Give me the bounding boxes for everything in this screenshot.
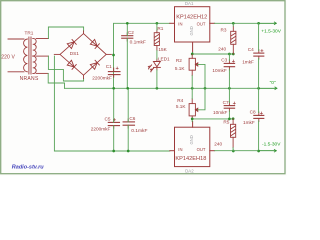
svg-text:GND: GND [189, 135, 194, 144]
svg-text:DS1: DS1 [70, 51, 80, 56]
junction C2/C6 column on 0 rail [126, 87, 129, 90]
svg-text:240: 240 [214, 141, 222, 146]
resistor R1 [154, 30, 159, 51]
junction C3/C7 column on 0 rail [228, 87, 231, 90]
diode D top-left [67, 39, 76, 48]
svg-text:5.1K: 5.1K [176, 104, 187, 109]
svg-text:C2: C2 [128, 30, 134, 35]
capacitor C1 [108, 68, 120, 77]
svg-text:2200mkF: 2200mkF [91, 126, 111, 131]
svg-text:GND: GND [189, 26, 194, 35]
wire C2 column [126, 23, 128, 88]
svg-text:C4: C4 [248, 47, 254, 52]
svg-text:5.1K: 5.1K [175, 66, 186, 71]
svg-text:NRANS: NRANS [20, 76, 39, 82]
capacitor C2 [122, 33, 133, 41]
svg-text:C1: C1 [106, 64, 112, 69]
junction C7 bottom [228, 118, 231, 121]
IC DA1 [170, 7, 215, 53]
svg-text:1mkF: 1mkF [242, 59, 254, 64]
junction R5 on -out rail [232, 150, 235, 153]
transformer TR1 [8, 37, 48, 74]
junction C8 on -out rail [257, 150, 260, 153]
junction R5 top [232, 117, 235, 120]
svg-text:KP142EH18: KP142EH18 [175, 156, 206, 162]
junction wiper column on 0 rail [204, 87, 207, 90]
wire C5 C6 columns [113, 88, 115, 151]
wire C4 column [258, 23, 260, 88]
junction C3 top [228, 53, 231, 56]
wire bridge plus down to C1 and 0 rail [113, 55, 115, 88]
svg-text:DA2: DA2 [185, 168, 194, 173]
diode D bottom-left [67, 60, 76, 69]
junction R1 / +raw rail [156, 22, 159, 25]
svg-text:LED1: LED1 [158, 57, 170, 62]
capacitor C4 [254, 50, 264, 60]
out rail DA2 [215, 150, 259, 152]
svg-text:R2: R2 [176, 58, 182, 63]
top rail out segment [215, 22, 259, 24]
svg-text:2200mkF: 2200mkF [92, 75, 112, 80]
junction C4/C8 column on 0 rail [257, 87, 260, 90]
svg-text:15K: 15K [158, 47, 167, 52]
trimmer R4 [189, 99, 198, 119]
svg-text:0.1mkF: 0.1mkF [131, 128, 147, 134]
svg-text:0.1mkF: 0.1mkF [130, 39, 146, 45]
svg-text:OUT: OUT [197, 147, 206, 152]
svg-text:KP142EH12: KP142EH12 [176, 15, 207, 21]
junction R3 on +out rail [232, 22, 235, 25]
junction C2 / +raw rail [126, 22, 129, 25]
svg-text:10mkF: 10mkF [213, 110, 227, 115]
svg-text:R3: R3 [221, 27, 227, 32]
wire rail to R1 [156, 23, 158, 30]
junction DA2 GND / R4 [191, 118, 194, 121]
svg-text:C5: C5 [105, 116, 111, 121]
svg-text:-1.5-30V: -1.5-30V [262, 142, 281, 148]
wire C3 column [228, 54, 230, 88]
wire C8 column [258, 88, 260, 150]
svg-text:R1: R1 [157, 26, 163, 31]
capacitor C3 [224, 60, 234, 70]
IC DA2 [170, 122, 215, 167]
svg-text:"0": "0" [270, 80, 276, 86]
node junction bridge out [112, 54, 115, 57]
wire bridge plus up and top rail [114, 23, 170, 55]
svg-text:C6: C6 [129, 116, 135, 121]
resistor R5 [231, 119, 236, 148]
wire DA2 gnd horizontal [192, 119, 233, 122]
svg-text:R5: R5 [223, 119, 229, 124]
wire R1 to LED1 [156, 51, 158, 59]
svg-text:C3: C3 [221, 58, 227, 63]
junction C4 on +out rail [257, 22, 260, 25]
capacitor C6 [123, 119, 134, 128]
junction DA1 GND / R2 [191, 53, 194, 56]
junction C1/C5 column on 0 rail [112, 87, 115, 90]
svg-text:IN: IN [178, 22, 182, 27]
capacitor C7 [224, 102, 234, 112]
pin +out arrow [259, 22, 277, 25]
wire R2 bottom to 0 rail [191, 76, 193, 89]
LED1 [148, 59, 160, 72]
wire 0 rail to R4 top [191, 88, 193, 99]
junction C5 on -raw rail [112, 150, 115, 153]
wire sec top to bridge top [48, 27, 83, 39]
wire center tap to bridge bottom [48, 56, 83, 81]
junction R2/R4 column on 0 rail [191, 87, 194, 90]
wire sec bottom to 0 rail start [48, 73, 64, 88]
wire R4 wiper to 0 rail [198, 88, 205, 110]
wire R2 wiper to 0 rail [198, 64, 205, 88]
resistor R3 [231, 26, 236, 54]
svg-text:+1.5-30V: +1.5-30V [261, 29, 281, 35]
border frame [1, 1, 285, 174]
raw negative rail [54, 56, 169, 151]
svg-text:220 V: 220 V [1, 55, 15, 61]
trimmer R2 [189, 55, 198, 76]
svg-text:DA1: DA1 [185, 1, 194, 6]
wire C7 column [228, 88, 230, 119]
capacitor C8 [254, 112, 264, 122]
svg-text:TR1: TR1 [25, 30, 34, 35]
svg-text:OUT: OUT [197, 22, 206, 27]
capacitor C5 [108, 120, 119, 129]
svg-text:IN: IN [178, 147, 182, 152]
0 rail [65, 87, 259, 89]
svg-text:Radio-stv.ru: Radio-stv.ru [12, 164, 44, 170]
svg-text:1mkF: 1mkF [243, 120, 255, 125]
pin -out arrow [259, 149, 277, 152]
svg-text:10mkF: 10mkF [212, 68, 226, 73]
svg-text:R4: R4 [177, 98, 183, 103]
pin 0 arrow [259, 87, 277, 90]
junction C6 on -raw rail [127, 150, 130, 153]
bridge rectifier DS1 [54, 31, 111, 79]
diode D bottom-right [90, 60, 99, 69]
svg-text:C7: C7 [223, 100, 229, 105]
junction R3 bottom [232, 53, 235, 56]
wire LED1 to 0 rail [156, 70, 158, 88]
junction LED1 on 0 rail [156, 87, 159, 90]
wire DA1 gnd down [193, 53, 234, 55]
svg-text:C8: C8 [250, 109, 256, 114]
diode D top-right [90, 39, 99, 48]
svg-text:240: 240 [218, 46, 226, 51]
